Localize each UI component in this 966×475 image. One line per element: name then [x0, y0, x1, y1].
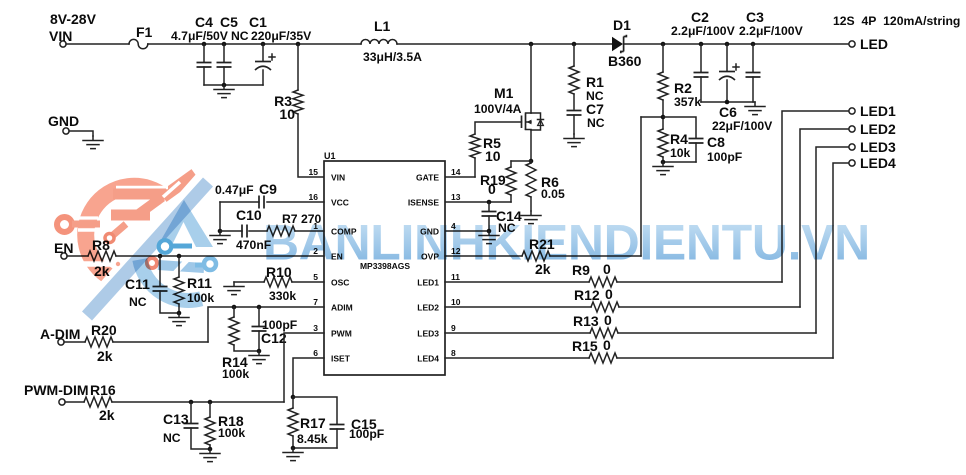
node LED4 terminal — [849, 160, 855, 166]
ground C9 C10 — [210, 231, 230, 244]
wire ISET pin riser — [293, 358, 324, 397]
svg-text:BANLINHKIENDIENTU.VN: BANLINHKIENDIENTU.VN — [263, 215, 870, 271]
capacitor C8 100pF — [663, 117, 742, 164]
diode D1 B360 — [608, 17, 642, 69]
watermark logo red donut left — [57, 217, 72, 232]
capacitor C3 2.2uF/100V — [739, 9, 804, 102]
wire PWM pin riser — [284, 333, 324, 402]
capacitor C7 NC — [567, 101, 605, 134]
resistor R3 10 — [274, 44, 324, 177]
resistor R15 0 — [445, 337, 833, 363]
node source sense junction — [529, 159, 534, 164]
fuse F1 — [129, 39, 148, 48]
node GND terminal — [63, 128, 69, 134]
watermark logo blue donut 2 trace — [195, 263, 203, 268]
node C2 junction — [699, 42, 704, 47]
resistor R5 10 gate — [445, 122, 522, 177]
ground R17 C15 — [283, 448, 303, 461]
watermark logo white slash cut — [79, 166, 211, 313]
wire LED3 riser — [816, 147, 849, 333]
capacitor C14 NC — [482, 202, 522, 235]
wire input cap ground bus — [204, 84, 263, 86]
node C4 rail junction — [202, 42, 207, 47]
capacitor C13 NC — [163, 402, 210, 449]
node C12 bottom junction — [257, 349, 262, 354]
ground C14 GND pin — [479, 231, 499, 244]
watermark logo blue stripe — [82, 178, 213, 321]
capacitor C1 220uF/35V polarized — [249, 14, 312, 85]
node cap bus junction — [222, 83, 227, 88]
resistor R10 330k — [234, 264, 324, 303]
node C11 junction — [158, 254, 163, 259]
node C13 junction — [189, 400, 194, 405]
node PWM-DIM terminal — [59, 399, 65, 405]
wire OVP riser to divider — [640, 117, 642, 256]
capacitor C5 NC — [217, 14, 249, 85]
resistor R17 8.45k — [288, 397, 328, 448]
watermark logo salmon ring arc — [86, 186, 166, 277]
wire diode to LED terminal — [624, 43, 849, 45]
resistor R2 357k — [658, 44, 701, 117]
node LED output terminal — [849, 41, 855, 47]
watermark logo salmon Z beak — [160, 169, 199, 202]
node R11 bottom junction — [177, 311, 182, 316]
wire VIN rail to fuse — [66, 43, 129, 45]
node LED1 terminal — [849, 108, 855, 114]
wire GND pin line — [445, 230, 489, 232]
watermark logo blue donut 2 — [204, 258, 216, 270]
watermark logo blue Z bottom bar — [158, 260, 205, 273]
resistor R16 2k — [65, 382, 284, 423]
ground GND terminal — [83, 136, 103, 149]
node VIN input terminal — [60, 41, 66, 47]
wire LED1 riser — [782, 111, 849, 282]
node R4 bottom junction — [661, 160, 666, 165]
ground input caps — [214, 85, 234, 98]
node R18 junction — [208, 400, 213, 405]
node R2 junction — [661, 42, 666, 47]
capacitor C9 0.47uF — [215, 181, 324, 209]
node R18 bottom junction — [208, 447, 213, 452]
op-amp U1 MP3398AGS LED driver IC — [324, 151, 445, 375]
ground R4 C8 — [653, 162, 673, 175]
node R3 rail junction — [296, 42, 301, 47]
ground R6 — [521, 211, 541, 224]
wire LED2 riser — [800, 129, 849, 307]
watermark logo white channel above bar — [116, 186, 168, 189]
node C14 junction — [487, 200, 492, 205]
node COMP junction — [218, 229, 223, 234]
watermark logo salmon stub to small donut — [110, 221, 129, 238]
capacitor C12 100pF — [252, 307, 298, 351]
resistor R21 2k — [445, 236, 641, 277]
watermark logo white donut lower — [113, 259, 124, 270]
node output bus junction — [725, 100, 730, 105]
ground C7 — [564, 134, 584, 147]
capacitor C2 2.2uF/100V — [671, 9, 736, 102]
node C3 junction — [751, 42, 756, 47]
node LED3 terminal — [849, 144, 855, 150]
watermark logo salmon inner bar lower — [111, 210, 150, 221]
watermark logo blue ring bottom arc — [140, 260, 202, 301]
resistor R14 100k — [222, 307, 259, 381]
watermark logo salmon inner bar upper — [113, 189, 166, 200]
resistor R7 270 — [267, 212, 324, 236]
watermark logo salmon inner diagonal — [133, 193, 165, 220]
node LED2 terminal — [849, 126, 855, 132]
resistor R20 2k — [64, 322, 208, 364]
watermark logo white trace cut lower — [83, 261, 112, 267]
node C5 rail junction — [222, 42, 227, 47]
capacitor C10 470nF — [220, 207, 271, 252]
node C12 junction — [257, 305, 262, 310]
resistor R8 2k — [67, 237, 324, 279]
wire inductor to diode — [397, 43, 612, 45]
node R4 top junction — [661, 115, 666, 120]
node M1 drain junction — [529, 42, 534, 47]
resistor R1 NC — [569, 44, 604, 109]
wire M1 source down — [530, 130, 532, 161]
node C1 rail junction — [261, 42, 266, 47]
inductor L1 33uH/3.5A — [361, 18, 422, 64]
node R11 junction — [177, 254, 182, 259]
watermark logo blue sail white wedge — [171, 222, 196, 247]
resistor R11 100k — [174, 256, 214, 313]
wire output cap bus — [701, 101, 755, 103]
node A-DIM terminal — [58, 339, 64, 345]
resistor R6 0.05 — [526, 161, 565, 211]
capacitor C6 22uF/100V polarized — [712, 44, 773, 133]
wire VCC branch down — [219, 202, 221, 231]
transistor M1 100V/4A MOSFET — [474, 44, 544, 130]
resistor R19 0 — [480, 161, 531, 202]
ground R10 — [224, 282, 244, 295]
resistor R9 0 — [445, 261, 782, 287]
node R17 top junction — [291, 395, 296, 400]
watermark logo blue donut 1 — [159, 240, 172, 253]
node R1 junction — [572, 42, 577, 47]
watermark logo blue donut 1 trace — [171, 244, 192, 249]
capacitor C15 100pF — [293, 397, 384, 448]
node R14 junction — [232, 305, 237, 310]
node R17 bottom junction — [291, 446, 296, 451]
capacitor C4 4.7uF/50V — [171, 14, 229, 85]
watermark logo white slit below trace — [78, 228, 98, 231]
watermark logo small red donut — [105, 234, 114, 243]
ground C11 R11 — [169, 313, 189, 326]
node EN terminal — [61, 253, 67, 259]
wire LED4 riser — [833, 163, 849, 358]
node GND pin junction — [487, 229, 492, 234]
ground output caps — [745, 102, 765, 115]
watermark logo blue sail — [157, 200, 213, 247]
ground C13 R18 — [200, 449, 220, 462]
watermark logo white slit above trace — [78, 216, 98, 219]
watermark logo red donut trace — [72, 221, 100, 228]
resistor R4 10k — [641, 117, 691, 162]
watermark logo white notch in blue bar — [172, 255, 192, 275]
ground R14 C12 — [249, 351, 269, 364]
watermark logo white notch at beak — [162, 181, 181, 199]
wire ISENSE line — [445, 201, 511, 203]
resistor R18 100k — [205, 402, 245, 449]
node C6 junction — [725, 42, 730, 47]
wire fuse to inductor — [148, 43, 361, 45]
capacitor C11 NC — [125, 256, 179, 313]
resistor R13 0 — [445, 312, 816, 338]
wire A-DIM riser — [208, 307, 324, 342]
resistor R12 0 — [445, 286, 800, 312]
watermark logo red donut mid — [147, 258, 157, 268]
wire GND terminal — [69, 131, 93, 136]
